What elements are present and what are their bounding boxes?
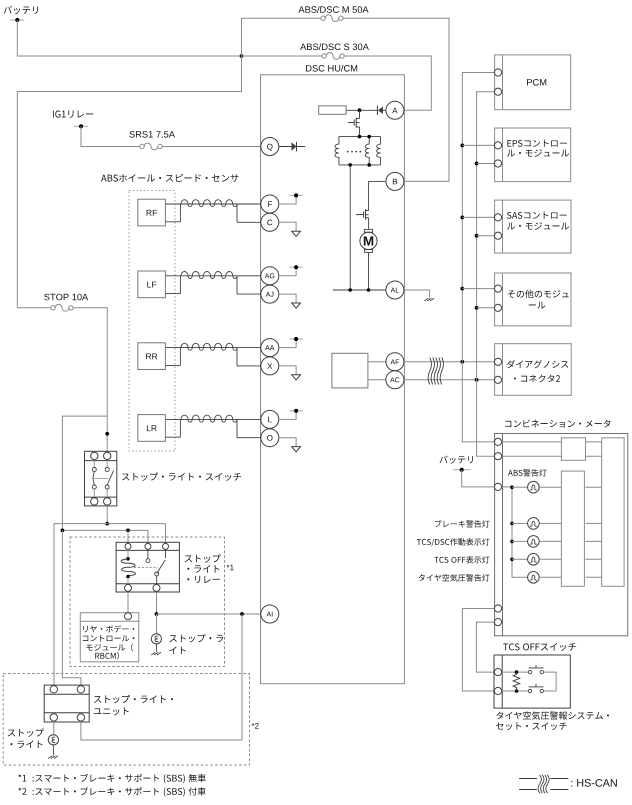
motor M	[360, 232, 377, 249]
TCS pin 2	[494, 687, 501, 694]
label EPSコントロー	[507, 140, 567, 147]
wire LR bottom lead	[165, 436, 260, 439]
wire AJ ground stub	[279, 294, 296, 303]
wire AL to chassis ground	[404, 290, 429, 298]
stop light relay box	[116, 542, 179, 592]
label その他のモジュ	[508, 290, 569, 298]
pin AF	[386, 353, 404, 371]
wire X ground stub	[279, 366, 296, 375]
lamp ストップ・ライト (relay)	[151, 634, 161, 644]
wire valve return down	[349, 165, 351, 290]
node AI branch to stop light unit	[240, 612, 244, 616]
supply tap at AA	[290, 338, 303, 340]
RBCM box	[80, 613, 139, 662]
wire lamp to ground	[155, 644, 157, 652]
wire driver to MCU 4	[586, 558, 602, 560]
pin AJ	[261, 285, 279, 303]
label DSC HU/CM	[306, 65, 357, 72]
node CAN-L EPS	[475, 162, 479, 166]
wire block to AC	[368, 379, 386, 381]
wire line1 drop to relay pin3	[165, 524, 167, 544]
wire CAN-H from AF	[404, 361, 495, 363]
IG1 relay tap	[74, 125, 88, 127]
wire lamp 3 to driver	[539, 540, 561, 542]
wire S30A fuse right and down to pin A	[344, 56, 431, 110]
wire L supply stub	[279, 411, 296, 420]
wire AG supply stub	[279, 267, 296, 276]
node valve feed	[358, 108, 362, 112]
battery tap meter	[453, 469, 471, 471]
ground under unit lamp	[48, 756, 52, 759]
CAN controller block	[332, 353, 368, 388]
sensor RF box	[138, 199, 166, 226]
wire AA supply stub	[279, 339, 296, 348]
wire SRS1 fuse to pin Q	[162, 146, 261, 148]
wire block to diode	[346, 109, 377, 111]
switch left pole closed	[93, 472, 94, 486]
node AL line motor	[367, 288, 371, 292]
RBCM connector pin	[125, 613, 132, 620]
label TCS/DSC作動表示灯	[417, 538, 490, 546]
wire LF top lead	[165, 275, 260, 277]
solenoid coil right	[377, 137, 381, 165]
wire motor to AL line	[368, 252, 370, 290]
node lamp rail 2	[510, 522, 514, 526]
label ストップ・ライト・スイッチ	[122, 472, 241, 480]
relay coil-arm dashed link	[134, 567, 158, 569]
ground at AJ	[292, 303, 301, 308]
switch pin top-right	[104, 452, 111, 459]
label ル・モジュール EPS	[507, 149, 569, 156]
label TCS OFF表示灯	[434, 556, 489, 563]
wire lamp 2 to driver	[539, 522, 561, 524]
label STOP 10A	[44, 294, 88, 301]
dashed box stop light unit group	[3, 674, 249, 766]
relay contact stub bottom	[156, 576, 158, 584]
wire LR top lead	[165, 418, 260, 420]
switch pin bottom-right	[104, 498, 111, 505]
wire CAN-H bus	[462, 73, 494, 442]
label *2	[252, 723, 259, 729]
label *1	[227, 565, 234, 571]
label ール	[529, 302, 546, 309]
wire CAN-H stub other modules	[462, 288, 494, 290]
fuse SRS1 7.5A	[140, 144, 144, 148]
label タイヤ空気圧警告灯	[419, 574, 490, 581]
wire rail to lamp 4	[512, 558, 528, 560]
node CAN-L other modules	[475, 306, 479, 310]
node CAN-L SAS	[475, 234, 479, 238]
switch right pole open arm	[107, 471, 113, 486]
pin AG	[261, 267, 279, 285]
wire rail to lamp 1	[512, 486, 528, 488]
fuse ABS/DSC M 50A	[321, 16, 325, 20]
ground at C	[292, 231, 301, 236]
node switch output	[105, 522, 109, 526]
lamp ABS warning	[528, 481, 540, 493]
footnote *2	[18, 787, 205, 796]
ground at X	[292, 375, 301, 380]
switch pin bottom-left	[91, 498, 98, 505]
pin O	[261, 429, 279, 447]
label ・コネクタ2	[514, 375, 560, 383]
resistor TCS	[513, 672, 520, 691]
ground under relay lamp	[151, 652, 155, 655]
relay pin top1	[125, 543, 131, 549]
pin AI	[261, 605, 279, 623]
lamp TCS OFF indicator	[528, 554, 540, 566]
wire battery second feed down-left to STOP fuse	[17, 56, 241, 308]
wire line1 to unit and relay pin3	[54, 524, 166, 686]
pin X	[261, 357, 279, 375]
pin L	[261, 410, 279, 428]
node CAN-L at bus	[475, 378, 479, 382]
wire CAN-L stub other modules	[477, 307, 495, 309]
pin Q	[261, 138, 279, 156]
wire unit bottom-left to lamp	[53, 721, 55, 735]
wire RR bottom lead	[165, 364, 260, 367]
supply tap at L	[290, 410, 303, 412]
wire F supply stub	[279, 195, 296, 204]
legend twisted pair wires	[519, 779, 568, 790]
label タイヤ空気圧警報システム・	[496, 711, 609, 719]
twisted pair RR	[181, 343, 237, 350]
label ABS/DSC M 50A	[298, 6, 368, 13]
label TCS OFFスイッチ	[503, 643, 576, 651]
lamp tire pressure warning	[528, 572, 540, 584]
dotted sensor group box	[129, 191, 175, 452]
TCS switch bottom contact	[528, 689, 531, 692]
wire driver to MCU 3	[586, 540, 602, 542]
label ブレーキ警告灯	[435, 520, 490, 528]
wire CAN-L bus	[477, 92, 495, 457]
wire switch output down	[106, 505, 108, 523]
node TCS resistor bottom	[515, 689, 519, 693]
relay contact fixed top	[146, 559, 150, 563]
wire battery down and right to main node	[17, 20, 241, 56]
module SAS box	[495, 200, 571, 253]
label ストップ unit lamp	[8, 728, 44, 736]
wire lamp 5 to driver	[539, 576, 561, 578]
lamp TCS/DSC indicator	[528, 536, 540, 548]
node line2 at relay pin1	[126, 529, 130, 533]
wire IG1 to fuse	[81, 126, 140, 146]
node CAN-H other modules	[460, 287, 464, 291]
wire O ground stub	[279, 438, 296, 447]
wire TCS contacts common	[544, 672, 557, 691]
module PCM box	[495, 55, 571, 110]
wire lamp 1 to driver	[539, 486, 561, 488]
label ABS警告灯	[508, 469, 547, 476]
relay coil stub bottom	[127, 578, 129, 583]
unit pin bottom-left	[50, 714, 57, 721]
relay moving arm	[157, 560, 166, 574]
node lamp rail 4	[510, 558, 514, 562]
solenoid valve bank rails	[339, 137, 381, 165]
wire relay pin1 to RBCM	[127, 591, 129, 612]
node AL line valve return	[348, 288, 352, 292]
node relay output	[155, 612, 159, 616]
twisted pair LF	[181, 271, 237, 278]
sensor LF box	[138, 271, 166, 298]
relay contact stub pin2	[147, 549, 149, 558]
relay coil	[121, 559, 135, 577]
wire line2 drop to relay pin1	[127, 530, 129, 543]
label ストップ・ラ	[169, 634, 223, 642]
switch pin top-left	[91, 452, 98, 459]
wire driver to MCU 2	[586, 522, 602, 524]
lamp brake warning	[528, 518, 540, 530]
relay coil bottom node	[126, 575, 130, 579]
wire STOP fuse right and down to switch	[73, 308, 107, 452]
TCS OFF switch box	[494, 655, 570, 708]
wire line2 from unit feed to relay pins	[62, 530, 147, 543]
wire meter battery feed	[462, 470, 495, 487]
wire C ground stub	[279, 222, 296, 231]
twisted pair HS-CAN	[428, 358, 431, 385]
wire to ABS/DSC M 50A fuse line up	[242, 18, 321, 56]
wire battery to STOP fuse	[17, 307, 51, 309]
supply tap at AG	[290, 266, 303, 268]
chassis ground at AL	[424, 298, 428, 301]
label リヤ・ボデー・	[83, 625, 134, 632]
pin AA	[261, 339, 279, 357]
wire relay pin2 down to AI line	[156, 591, 158, 614]
label PCM	[527, 79, 546, 86]
wire driver to MCU 1	[586, 486, 602, 488]
wire CAN-L stub SAS	[477, 235, 495, 237]
wire unit bottom-right to AI line	[81, 614, 242, 740]
label ストップ・ライト・ unit	[94, 695, 173, 703]
meter lamp driver block	[561, 471, 584, 586]
MOSFET pump motor driver	[365, 209, 367, 220]
pin B	[386, 172, 404, 190]
module EPS box	[495, 128, 571, 182]
relay coil top node	[126, 557, 130, 561]
label ・ライト unit lamp	[10, 740, 42, 748]
solenoid coil middle	[365, 137, 369, 165]
dashed box smart brake support relay	[70, 537, 225, 667]
dots more valves	[347, 151, 349, 153]
node line2 left	[61, 529, 65, 533]
node CAN-H EPS	[460, 144, 464, 148]
wire rail to lamp 2	[512, 522, 528, 524]
pin C	[261, 213, 279, 231]
node valve bottom2	[367, 163, 371, 167]
unit pin top-right	[77, 686, 84, 693]
node CAN-H SAS	[460, 216, 464, 220]
wire TCS pin2 to contact	[502, 690, 529, 692]
lamp supply rail	[512, 487, 528, 577]
pin F	[261, 195, 279, 213]
wire to stop light lamp	[156, 614, 158, 634]
wire unit right feed	[62, 530, 81, 685]
pin AC	[386, 371, 404, 389]
meter pin c4	[494, 605, 501, 612]
wire AL line	[333, 289, 386, 291]
wire S30A line left segment	[242, 55, 323, 57]
fuse STOP 10A	[51, 306, 55, 310]
lamp ストップ・ライト (unit)	[48, 735, 58, 745]
wire battery to lamp rail	[502, 486, 512, 488]
label ・ライト relay line2	[187, 565, 219, 573]
meter pin c2	[494, 453, 501, 460]
label RBCM）	[95, 652, 119, 660]
wire interface to MCU 2	[586, 455, 602, 457]
label ABSホイール・スピード・センサ	[101, 174, 238, 182]
switch mechanical link	[93, 477, 109, 479]
unit pin top-left	[50, 686, 57, 693]
battery positive tap	[10, 19, 24, 21]
footnote *1	[18, 774, 205, 783]
relay contact movable	[155, 572, 159, 576]
node valve bottom1	[348, 163, 352, 167]
wire LF bottom lead	[165, 293, 260, 296]
meter interface block	[561, 438, 585, 461]
unit pin bottom-right	[77, 714, 84, 721]
node lamp rail 1	[510, 485, 514, 489]
combination meter box	[495, 434, 628, 636]
wire TCS pin1 to contact	[502, 671, 529, 673]
battery バッテリ label	[4, 6, 39, 14]
wire interface to MCU 1	[586, 441, 602, 443]
fuse ABS/DSC S 30A	[322, 54, 326, 58]
label ル・モジュール SAS	[507, 222, 569, 229]
module other box	[495, 273, 571, 326]
wire CAN-L stub EPS	[477, 163, 495, 165]
relay pin top3	[163, 543, 169, 549]
pin AL	[386, 281, 404, 299]
diode at Q	[279, 146, 292, 148]
sensor LR box	[138, 415, 166, 442]
twisted pair RF	[181, 200, 237, 207]
MOSFET valve driver	[359, 110, 361, 118]
wire RF top lead	[165, 203, 260, 205]
pump relay block	[319, 106, 346, 115]
pin A	[386, 101, 404, 119]
label コンビネーション・メータ	[505, 420, 610, 428]
motor M brush bottom	[364, 250, 372, 253]
wire to pin AI	[157, 613, 261, 615]
label イト	[169, 647, 185, 655]
label SASコントロー	[507, 212, 567, 219]
node main battery junction	[240, 54, 244, 58]
solenoid coil left	[335, 137, 339, 165]
wire CAN-H stub EPS	[462, 144, 494, 146]
label モジュール（	[86, 644, 133, 652]
wire driver to MCU 5	[586, 576, 602, 578]
switch inner stubs	[94, 461, 107, 498]
label : HS-CAN	[571, 779, 617, 787]
label バッテリ meter	[440, 456, 473, 464]
label セット・スイッチ	[496, 722, 567, 730]
meter MCU block	[602, 438, 624, 587]
label ストップ relay line1	[185, 554, 221, 562]
relay contact stub pin3	[165, 549, 167, 558]
wire RF bottom lead	[165, 221, 260, 224]
wire CAN-H stub SAS	[462, 216, 494, 218]
legend twist symbol	[538, 775, 541, 793]
relay pin bottom1	[125, 584, 132, 591]
wire meter CAN-H internal	[502, 441, 562, 443]
wire meter c5 to TCS switch	[476, 622, 494, 672]
wire M50A fuse right and down to pin B	[343, 18, 449, 181]
node valve top2	[367, 135, 371, 139]
node on stop feed	[105, 432, 109, 436]
diode at A	[376, 106, 378, 115]
module diagnosis connector box	[495, 344, 572, 396]
wire unit lamp to ground	[52, 745, 54, 755]
wire lamp 4 to driver	[539, 558, 561, 560]
wire meter c4 to TCS switch	[462, 609, 494, 692]
switch contact small circles	[92, 468, 96, 472]
relay pin bottom2	[153, 584, 160, 591]
relay pin top2	[145, 543, 151, 549]
label ユニット	[94, 707, 129, 715]
label コントロール・	[83, 635, 135, 641]
DSC HU/CM unit box	[261, 75, 405, 684]
wire CAN-L from AC	[404, 379, 495, 381]
TCS pin 1	[494, 669, 501, 676]
meter pin c5	[494, 619, 501, 626]
label IG1リレー	[53, 110, 93, 117]
wire block to AF	[368, 361, 386, 363]
wire meter CAN-L internal	[502, 455, 562, 457]
supply tap at F	[290, 194, 303, 196]
label SRS1 7.5A	[129, 131, 175, 138]
wire RR top lead	[165, 347, 260, 349]
motor M brush top	[364, 229, 372, 232]
stop light switch box	[85, 451, 117, 506]
meter pin c3	[494, 483, 501, 490]
node TCS resistor top	[515, 670, 519, 674]
node CAN-H at bus	[460, 360, 464, 364]
sensor RR box	[138, 343, 166, 370]
wire B to motor MOSFET	[369, 181, 386, 210]
TCS switch top contact	[528, 670, 531, 673]
node lamp rail 3	[510, 540, 514, 544]
node valve top1	[358, 135, 362, 139]
twisted pair LR	[181, 415, 237, 422]
ground at O	[292, 447, 301, 452]
label ・リレー relay line3	[187, 576, 220, 583]
relay coil stub top	[127, 549, 129, 557]
label ダイアグノシス	[507, 360, 569, 368]
wire rail to lamp 3	[512, 540, 528, 542]
stop light unit box	[44, 685, 89, 722]
wire branch to stop light unit feed	[62, 416, 107, 530]
label ABS/DSC S 30A	[300, 43, 369, 50]
meter pin c1	[494, 438, 501, 445]
